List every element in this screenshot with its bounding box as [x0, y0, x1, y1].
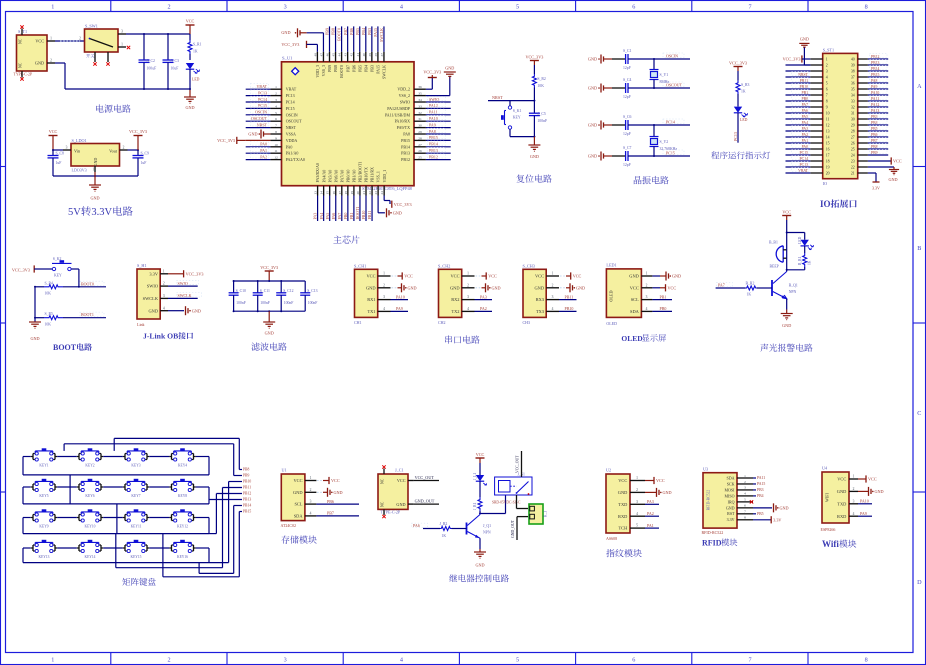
svg-text:32.768KHz: 32.768KHz: [660, 147, 678, 151]
title 矩阵键盘: [122, 578, 155, 586]
button KEY15: [123, 540, 149, 559]
svg-text:PA1: PA1: [802, 139, 809, 143]
ground GND S_C1: [588, 55, 612, 64]
svg-text:S_K1: S_K1: [513, 109, 522, 113]
net PB15 io-right: [868, 71, 888, 77]
capacitor S_C13 100nF: [300, 281, 317, 311]
svg-text:11: 11: [274, 149, 278, 153]
svg-text:GND: GND: [588, 86, 597, 91]
svg-text:NC: NC: [381, 501, 385, 507]
svg-text:PB13: PB13: [243, 498, 251, 502]
net PB7 io-right: [868, 137, 888, 143]
wire ldo-out: [128, 149, 140, 151]
svg-text:11: 11: [826, 117, 830, 121]
svg-text:2: 2: [744, 480, 746, 484]
capacitor S_C7 12pF: [612, 146, 632, 167]
svg-text:STM32F103C8T6_LQFP48: STM32F103C8T6_LQFP48: [362, 186, 413, 191]
ground GND at VSS_1 pin23: [378, 196, 402, 218]
svg-text:PC14: PC14: [800, 157, 809, 161]
power VCC_3V3 filter: [260, 265, 278, 281]
svg-text:S_C3: S_C3: [171, 59, 180, 63]
svg-text:42: 42: [350, 53, 354, 57]
net GND_OUT: [414, 499, 439, 505]
svg-text:9: 9: [826, 105, 828, 109]
svg-text:33: 33: [418, 104, 422, 108]
svg-text:PB15: PB15: [401, 138, 410, 143]
svg-text:Vin: Vin: [74, 149, 81, 154]
svg-text:GND: GND: [726, 505, 735, 510]
svg-text:1: 1: [636, 476, 638, 480]
svg-text:OSCIN: OSCIN: [666, 54, 678, 59]
svg-text:S_R1: S_R1: [193, 43, 202, 47]
svg-text:VCC: VCC: [837, 477, 846, 482]
regulator S_LDO1 LDO3V3: [63, 138, 128, 173]
svg-text:PB14: PB14: [401, 144, 410, 149]
svg-text:TXD: TXD: [618, 502, 627, 507]
net PA4 wire: [319, 196, 324, 222]
svg-text:1K: 1K: [442, 534, 447, 538]
svg-text:VCC: VCC: [35, 39, 44, 44]
svg-text:B: B: [917, 245, 921, 252]
wire alarm top: [786, 232, 805, 247]
net PB10 keyboard: [229, 480, 252, 484]
svg-text:OSCIN: OSCIN: [286, 112, 298, 117]
ground GND CH2: [476, 283, 501, 292]
svg-text:MISO: MISO: [724, 493, 734, 498]
svg-text:RFID-RC522: RFID-RC522: [707, 490, 711, 511]
svg-text:PB5: PB5: [757, 512, 764, 516]
svg-text:22: 22: [368, 191, 372, 195]
svg-text:PB3: PB3: [369, 65, 374, 72]
svg-text:GND: GND: [837, 489, 847, 494]
net SWIO jlink: [168, 280, 199, 286]
svg-text:PA0: PA0: [286, 144, 293, 149]
svg-text:6: 6: [744, 504, 746, 508]
svg-text:SCL: SCL: [631, 297, 639, 302]
svg-text:SWIO: SWIO: [147, 284, 158, 289]
svg-text:40: 40: [851, 57, 855, 61]
ground GND rfid: [753, 503, 789, 512]
net PB14 keyboard: [234, 504, 252, 508]
svg-text:NRST: NRST: [257, 122, 268, 127]
net PA9 CH1: [391, 306, 409, 311]
net PB9 keyboard: [234, 474, 250, 478]
svg-text:PB4: PB4: [871, 121, 878, 125]
capacitor S_C8 1uF: [48, 150, 65, 176]
svg-text:U1: U1: [282, 468, 287, 473]
svg-text:GND: GND: [192, 308, 201, 313]
svg-text:5: 5: [744, 498, 746, 502]
net PB0 wire: [343, 196, 348, 222]
svg-text:1: 1: [467, 272, 469, 276]
wire PC15: [628, 150, 690, 156]
svg-text:NRST: NRST: [286, 125, 297, 130]
svg-text:KEY4: KEY4: [178, 464, 187, 468]
svg-text:IO: IO: [823, 181, 827, 186]
wire reset bottom: [510, 136, 535, 138]
power VCC wifi: [858, 475, 877, 482]
svg-text:6: 6: [275, 117, 277, 121]
svg-text:3: 3: [744, 486, 746, 490]
LED B_D1: [798, 233, 814, 250]
buzzer B_B1 BEEP: [769, 240, 787, 269]
svg-text:100nF: 100nF: [284, 301, 294, 305]
svg-text:18: 18: [826, 159, 830, 163]
net PB11 CH3: [559, 294, 577, 299]
net PB0 oled: [652, 306, 672, 311]
svg-text:S_R2: S_R2: [537, 77, 546, 81]
svg-text:NRST: NRST: [798, 73, 808, 77]
svg-text:PB8: PB8: [331, 28, 336, 35]
svg-text:GND: GND: [588, 57, 597, 62]
svg-text:1: 1: [51, 4, 54, 11]
svg-text:GND: GND: [90, 196, 99, 201]
title 程序运行指示灯: [711, 151, 770, 159]
svg-text:1uF: 1uF: [141, 161, 147, 165]
net SWCLK jlink: [168, 293, 202, 299]
LED S_D2: [734, 107, 748, 143]
svg-text:PC14: PC14: [286, 100, 295, 105]
capacitor S_C4 12pF: [612, 78, 632, 99]
svg-text:GND: GND: [663, 490, 672, 495]
net OSCIN wire: [246, 109, 271, 115]
title 指纹模块: [606, 549, 642, 557]
power VCC_3V3 io pin1: [783, 55, 811, 62]
svg-text:VCC_OUT: VCC_OUT: [515, 455, 519, 473]
ground GND S_C6: [588, 121, 612, 130]
svg-text:SWCLK: SWCLK: [382, 65, 387, 79]
net PB4 wire: [361, 26, 366, 51]
button KEY3: [123, 448, 149, 467]
svg-text:PC13: PC13: [733, 132, 738, 141]
wire SW1 to VCC rail: [126, 33, 190, 35]
svg-text:PB8: PB8: [333, 65, 338, 72]
svg-text:H_1: H_1: [544, 511, 548, 517]
wire io-left: [786, 64, 811, 66]
net PB8 keyboard: [239, 468, 249, 472]
net PA2 fingerprint: [645, 511, 659, 516]
svg-text:10K: 10K: [537, 84, 544, 88]
net PA11 io-right: [868, 95, 888, 101]
LED J_L1: [473, 473, 486, 486]
net BOOT0 wire: [337, 26, 342, 51]
svg-text:PB7: PB7: [345, 65, 350, 72]
svg-text:PB1: PB1: [660, 294, 667, 299]
svg-text:31: 31: [851, 111, 855, 115]
svg-text:24: 24: [851, 153, 855, 157]
svg-text:S_C2: S_C2: [147, 59, 156, 63]
svg-text:GND: GND: [888, 177, 897, 182]
svg-text:PA3: PA3: [647, 499, 654, 504]
svg-text:3: 3: [826, 69, 828, 73]
svg-text:4: 4: [383, 307, 385, 311]
svg-text:S_C10: S_C10: [236, 289, 246, 293]
svg-text:PB11: PB11: [367, 211, 372, 220]
resistor S_R1 1K: [188, 34, 202, 60]
title 复位电路: [516, 174, 551, 182]
svg-text:B_B1: B_B1: [769, 240, 778, 244]
svg-text:PB5: PB5: [871, 127, 878, 131]
connector S_T1 TYPE-C-2P: [14, 25, 56, 80]
net PA6 relay: [412, 523, 428, 528]
power VCC_3V3 at VDD_2 pin36: [423, 70, 441, 90]
svg-text:PA3: PA3: [313, 213, 318, 220]
title OLED显示屏: [621, 334, 666, 343]
svg-text:30: 30: [418, 124, 422, 128]
wire VCC_3V3 to VDDA pin9: [246, 139, 271, 141]
net SWCLK wire: [379, 26, 384, 51]
svg-text:PB3: PB3: [367, 28, 372, 35]
net PC14 io-left: [786, 155, 811, 161]
svg-text:VCC_3V3: VCC_3V3: [783, 56, 801, 61]
svg-text:1K: 1K: [193, 50, 198, 54]
svg-text:GND: GND: [366, 285, 376, 290]
svg-text:39: 39: [851, 63, 855, 67]
svg-text:38: 38: [374, 53, 378, 57]
svg-text:25: 25: [851, 147, 855, 151]
wire T1-VCC to SW1: [55, 36, 85, 41]
module U3 RFID-RC522: [702, 466, 754, 535]
title 串口电路: [445, 335, 480, 343]
svg-text:8: 8: [826, 99, 828, 103]
resistor S_R3 1K: [736, 81, 750, 107]
ground GND S_C4: [588, 84, 612, 93]
svg-text:KEY7: KEY7: [131, 494, 140, 498]
svg-text:S_CH3: S_CH3: [523, 263, 535, 268]
svg-text:PB6: PB6: [871, 133, 878, 137]
svg-text:15: 15: [826, 141, 830, 145]
svg-text:3.3V: 3.3V: [773, 517, 781, 522]
svg-text:PB1/A0: PB1/A0: [352, 170, 357, 183]
svg-text:SWIO: SWIO: [400, 100, 410, 105]
svg-text:S_Y2: S_Y2: [660, 140, 669, 144]
capacitor S_C9 1uF: [133, 150, 150, 176]
svg-text:S_Y1: S_Y1: [660, 73, 669, 77]
capacitor S_C1 12pF: [612, 49, 632, 70]
svg-text:PA7/A0: PA7/A0: [339, 170, 344, 183]
net PB15 wire: [426, 135, 451, 141]
svg-text:16: 16: [332, 191, 336, 195]
svg-text:1: 1: [853, 475, 855, 479]
net PB9 io-right: [868, 149, 888, 155]
svg-text:29: 29: [418, 130, 422, 134]
button KEY14: [77, 540, 103, 559]
svg-text:4: 4: [467, 307, 469, 311]
svg-text:37: 37: [851, 75, 855, 79]
svg-text:5: 5: [516, 4, 519, 11]
svg-text:VSS_1: VSS_1: [376, 171, 381, 182]
svg-text:PB13: PB13: [429, 148, 438, 153]
svg-text:D: D: [917, 579, 922, 586]
net PA8 io-right: [868, 77, 888, 83]
svg-text:27: 27: [851, 135, 855, 139]
svg-text:10uF: 10uF: [171, 67, 179, 71]
svg-text:VCC: VCC: [868, 477, 877, 482]
svg-text:GND: GND: [588, 154, 597, 159]
svg-text:4: 4: [552, 307, 554, 311]
button KEY10: [77, 509, 103, 528]
svg-text:1: 1: [121, 42, 123, 46]
svg-text:KEY1: KEY1: [39, 464, 48, 468]
svg-text:WIFI: WIFI: [825, 492, 830, 502]
svg-text:KEY: KEY: [513, 116, 521, 120]
svg-text:21: 21: [362, 191, 366, 195]
svg-text:PB6: PB6: [327, 499, 334, 504]
svg-text:PA3: PA3: [802, 127, 809, 131]
svg-text:100nF: 100nF: [260, 301, 270, 305]
svg-text:S_C13: S_C13: [307, 289, 317, 293]
net PA1 fingerprint: [645, 523, 659, 528]
svg-text:24: 24: [380, 191, 384, 195]
ground GND filter: [263, 311, 275, 335]
svg-text:VCC: VCC: [656, 478, 665, 483]
net PB3 rfid: [753, 488, 764, 492]
wire power bottom rail: [55, 33, 190, 90]
wire keyboard right bus: [116, 482, 240, 577]
svg-text:12pF: 12pF: [623, 66, 631, 70]
svg-text:100uF: 100uF: [147, 67, 157, 71]
svg-text:3: 3: [552, 295, 554, 299]
svg-text:NPN: NPN: [789, 290, 797, 294]
svg-text:TX3: TX3: [536, 309, 545, 314]
svg-text:46: 46: [326, 53, 330, 57]
wire relay coil link: [479, 495, 506, 515]
svg-text:J_Q1: J_Q1: [483, 524, 491, 528]
net PA2 CH2: [475, 306, 493, 311]
svg-text:22: 22: [851, 165, 855, 169]
svg-text:GND: GND: [875, 489, 884, 494]
wire filter bottom rail: [233, 310, 306, 312]
svg-text:4: 4: [163, 306, 165, 310]
svg-text:KEY11: KEY11: [131, 525, 142, 529]
svg-text:26: 26: [851, 141, 855, 145]
svg-text:20: 20: [826, 171, 830, 175]
title 继电器控制电路: [449, 574, 509, 582]
net PA1 wire: [246, 147, 271, 153]
power VCC_3V3 reset: [525, 54, 543, 74]
svg-text:3: 3: [121, 29, 123, 33]
svg-text:GND: GND: [334, 490, 343, 495]
net PA6 io-left: [786, 107, 811, 113]
svg-text:5: 5: [275, 111, 277, 115]
svg-text:19: 19: [350, 191, 354, 195]
power VCC: [186, 19, 195, 35]
resistor S_R4 10K: [35, 281, 106, 295]
capacitor S_C11 100nF: [253, 281, 270, 311]
svg-text:33: 33: [851, 99, 855, 103]
svg-text:PB12: PB12: [429, 154, 438, 159]
svg-text:GND: GND: [800, 37, 809, 42]
capacitor S_C12 100nF: [276, 281, 293, 311]
svg-text:KEY5: KEY5: [39, 494, 48, 498]
svg-text:KEY: KEY: [54, 274, 62, 278]
svg-text:GND: GND: [293, 490, 303, 495]
svg-text:AS608: AS608: [606, 536, 617, 541]
power VCC CH1: [392, 272, 414, 279]
net PA11 wire: [426, 109, 451, 115]
capacitor S_C3 10uF: [163, 34, 180, 89]
svg-text:12: 12: [826, 123, 830, 127]
svg-text:8MHz: 8MHz: [660, 80, 670, 84]
svg-text:PA5: PA5: [802, 115, 809, 119]
svg-text:PB8: PB8: [243, 468, 250, 472]
svg-text:SWIO: SWIO: [178, 281, 188, 286]
button KEY7: [123, 479, 149, 498]
svg-text:PA1/A0: PA1/A0: [286, 151, 299, 156]
svg-text:6: 6: [632, 4, 635, 11]
svg-text:17: 17: [338, 191, 342, 195]
resistor S_R5 10K: [35, 312, 106, 326]
svg-text:VSS_3: VSS_3: [321, 65, 326, 76]
svg-text:3: 3: [310, 500, 312, 504]
svg-text:U3: U3: [703, 466, 708, 471]
svg-text:PA10: PA10: [429, 116, 438, 121]
svg-text:48: 48: [313, 53, 317, 57]
svg-text:TCH: TCH: [619, 526, 629, 531]
svg-text:PA2: PA2: [802, 133, 809, 137]
svg-text:S_C6: S_C6: [623, 115, 632, 119]
svg-text:PA11: PA11: [757, 476, 765, 480]
svg-text:PB11: PB11: [565, 294, 574, 299]
svg-text:VCC: VCC: [618, 478, 627, 483]
net PB10 wire: [361, 196, 366, 222]
svg-text:VCC: VCC: [331, 478, 340, 483]
svg-text:SDA: SDA: [294, 514, 304, 519]
svg-text:PB12: PB12: [871, 55, 880, 59]
svg-text:GND: GND: [780, 506, 789, 511]
ground GND boot: [29, 322, 41, 341]
button KEY11: [123, 509, 149, 528]
svg-text:S_C12: S_C12: [283, 289, 293, 293]
svg-text:13: 13: [314, 191, 318, 195]
svg-text:S_R5: S_R5: [45, 312, 54, 316]
svg-text:3: 3: [284, 4, 287, 11]
svg-text:5V: 5V: [68, 207, 81, 218]
net PB7 wire: [343, 26, 348, 51]
svg-text:2: 2: [636, 488, 638, 492]
svg-text:OSCOUT: OSCOUT: [251, 116, 268, 121]
svg-text:PA13: PA13: [871, 109, 879, 113]
ground GND at VSS_2 pin35: [426, 66, 456, 96]
svg-text:PA3: PA3: [480, 294, 487, 299]
svg-text:RX3: RX3: [536, 297, 545, 302]
svg-text:1K: 1K: [808, 260, 812, 265]
net GND_OUT relay: [511, 517, 528, 540]
svg-text:3: 3: [646, 295, 648, 299]
svg-text:PB7: PB7: [343, 28, 348, 35]
title 滤波电路: [251, 342, 286, 350]
svg-text:100nF: 100nF: [308, 301, 318, 305]
net BOOT1 wire: [355, 196, 360, 222]
ground GND power: [184, 88, 196, 110]
svg-text:VSSA: VSSA: [286, 132, 296, 137]
svg-text:VCC: VCC: [366, 274, 375, 279]
svg-text:GND: GND: [588, 123, 597, 128]
ground GND fingerprint: [645, 488, 672, 497]
power VCC storage: [317, 477, 340, 484]
svg-text:8: 8: [865, 4, 868, 11]
svg-text:PA10/RX: PA10/RX: [395, 119, 411, 124]
resistor S_R2 10K: [532, 74, 546, 101]
svg-text:PA6: PA6: [802, 109, 809, 113]
net PA12 wire: [426, 103, 451, 109]
net PB4 io-right: [868, 119, 888, 125]
svg-text:C: C: [917, 410, 921, 417]
svg-text:17: 17: [826, 153, 830, 157]
svg-text:34: 34: [418, 98, 422, 102]
svg-text:VCC_3V3: VCC_3V3: [186, 272, 204, 277]
svg-text:A: A: [917, 83, 922, 90]
